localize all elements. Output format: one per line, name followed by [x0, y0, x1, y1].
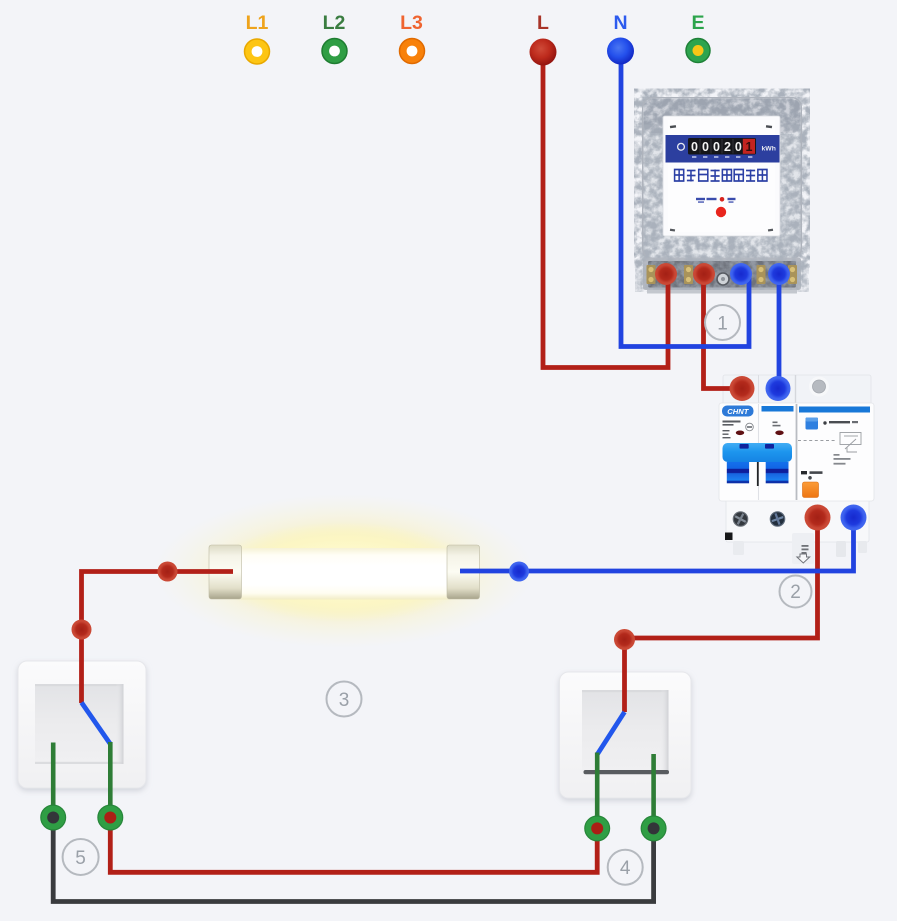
svg-text:1: 1 [746, 140, 753, 154]
svg-text:4: 4 [620, 858, 631, 879]
svg-text:0: 0 [713, 140, 720, 154]
svg-text:0: 0 [735, 140, 742, 154]
svg-text:kWh: kWh [762, 146, 776, 153]
svg-text:CHNT: CHNT [727, 407, 749, 416]
svg-text:E: E [691, 12, 704, 34]
svg-text:L3: L3 [400, 12, 423, 34]
svg-text:N: N [613, 12, 627, 34]
svg-text:2: 2 [724, 140, 731, 154]
svg-text:L2: L2 [323, 12, 346, 34]
svg-text:1: 1 [717, 314, 728, 335]
svg-text:0: 0 [691, 140, 698, 154]
svg-text:L1: L1 [246, 12, 269, 34]
svg-text:L: L [537, 12, 549, 34]
svg-text:3: 3 [339, 690, 350, 711]
svg-text:0: 0 [702, 140, 709, 154]
svg-text:2: 2 [790, 582, 801, 603]
svg-text:5: 5 [75, 848, 86, 869]
